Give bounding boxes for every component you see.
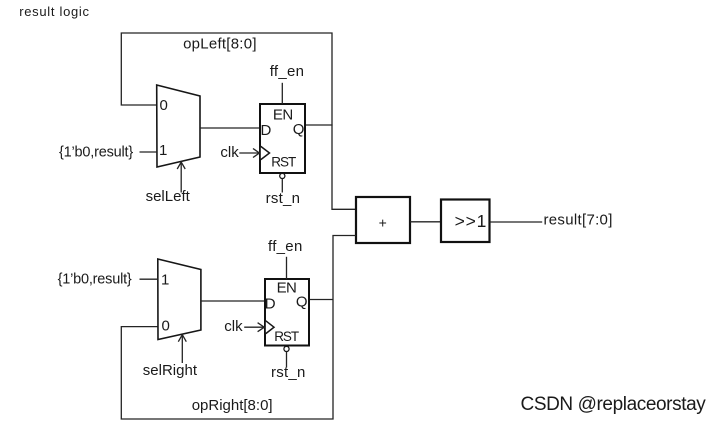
svg-text:Q: Q (293, 121, 305, 138)
svg-text:1: 1 (161, 272, 169, 289)
flip-flop U1 (register with EN / D / Q / RST) (260, 104, 305, 173)
svg-text:D: D (265, 295, 276, 312)
clock wedge of U2 (266, 321, 274, 334)
clock wedge of U1 (261, 146, 270, 159)
svg-text:ff_en: ff_en (268, 238, 303, 255)
svg-text:{1’b0,result}: {1’b0,result} (58, 271, 132, 287)
svg-text:EN: EN (277, 280, 297, 297)
svg-text:0: 0 (162, 318, 170, 335)
wire shifter output to result (490, 221, 543, 223)
mux M1 (selLeft) (157, 85, 200, 167)
wire mux M2 output to D of U2 (201, 300, 265, 302)
svg-text:selLeft: selLeft (146, 188, 191, 205)
svg-text:result logic: result logic (19, 4, 90, 19)
svg-text:ff_en: ff_en (270, 63, 305, 80)
clk arrow into U1 (239, 149, 259, 158)
wire Q1 to feedback node (305, 124, 333, 126)
svg-text:opLeft[8:0]: opLeft[8:0] (183, 36, 257, 53)
svg-text:1: 1 (159, 142, 167, 159)
mux M2 (selRight) (158, 259, 201, 340)
svg-text:rst_n: rst_n (271, 364, 306, 381)
flip-flop U2 (register with EN / D / Q / RST) (265, 279, 309, 346)
wire ff_en to U2 EN (286, 257, 288, 279)
svg-text:0: 0 (160, 97, 168, 114)
wire opLeft feedback loop (mux0 input, up, over, down to adder top input) (121, 33, 356, 209)
selLeft arrow into mux M1 (177, 162, 185, 193)
active-low reset bubble of U2 (284, 346, 289, 351)
svg-text:RST: RST (271, 155, 296, 170)
adder U3 (356, 197, 410, 243)
wire ff_en to U1 EN (281, 83, 283, 104)
svg-text:clk: clk (220, 144, 239, 161)
svg-text:clk: clk (224, 318, 243, 335)
wire {1'b0,result} to mux M1 input 1 (140, 151, 157, 153)
svg-text:{1’b0,result}: {1’b0,result} (59, 144, 133, 160)
wire adder output to shifter (410, 221, 441, 223)
svg-text:selRight: selRight (143, 362, 198, 379)
wire rst_n to U1 bubble (281, 179, 283, 193)
clk arrow into U2 (244, 323, 264, 332)
selRight arrow into mux M2 (178, 335, 186, 363)
svg-text:>>1: >>1 (455, 211, 488, 231)
wire rst_n to U2 bubble (286, 352, 288, 368)
svg-text:rst_n: rst_n (266, 190, 301, 207)
svg-text:Q: Q (296, 293, 308, 310)
wire mux M1 output to D of U1 (200, 127, 260, 129)
active-low reset bubble of U1 (280, 173, 285, 178)
svg-text:result[7:0]: result[7:0] (544, 212, 613, 229)
svg-text:CSDN @replaceorstay: CSDN @replaceorstay (521, 394, 707, 415)
svg-text:opRight[8:0]: opRight[8:0] (192, 397, 273, 414)
svg-text:D: D (261, 122, 272, 139)
wire {1'b0,result} to mux M2 input 1 (140, 278, 158, 280)
wire Q2 to feedback node (309, 299, 333, 301)
svg-text:+: + (379, 214, 387, 230)
svg-text:RST: RST (274, 329, 299, 344)
svg-text:EN: EN (273, 106, 293, 123)
shifter U4 (>>1) (441, 200, 490, 243)
wire opRight feedback loop (mux0 input, down, under, up to adder bottom input) (121, 236, 356, 420)
